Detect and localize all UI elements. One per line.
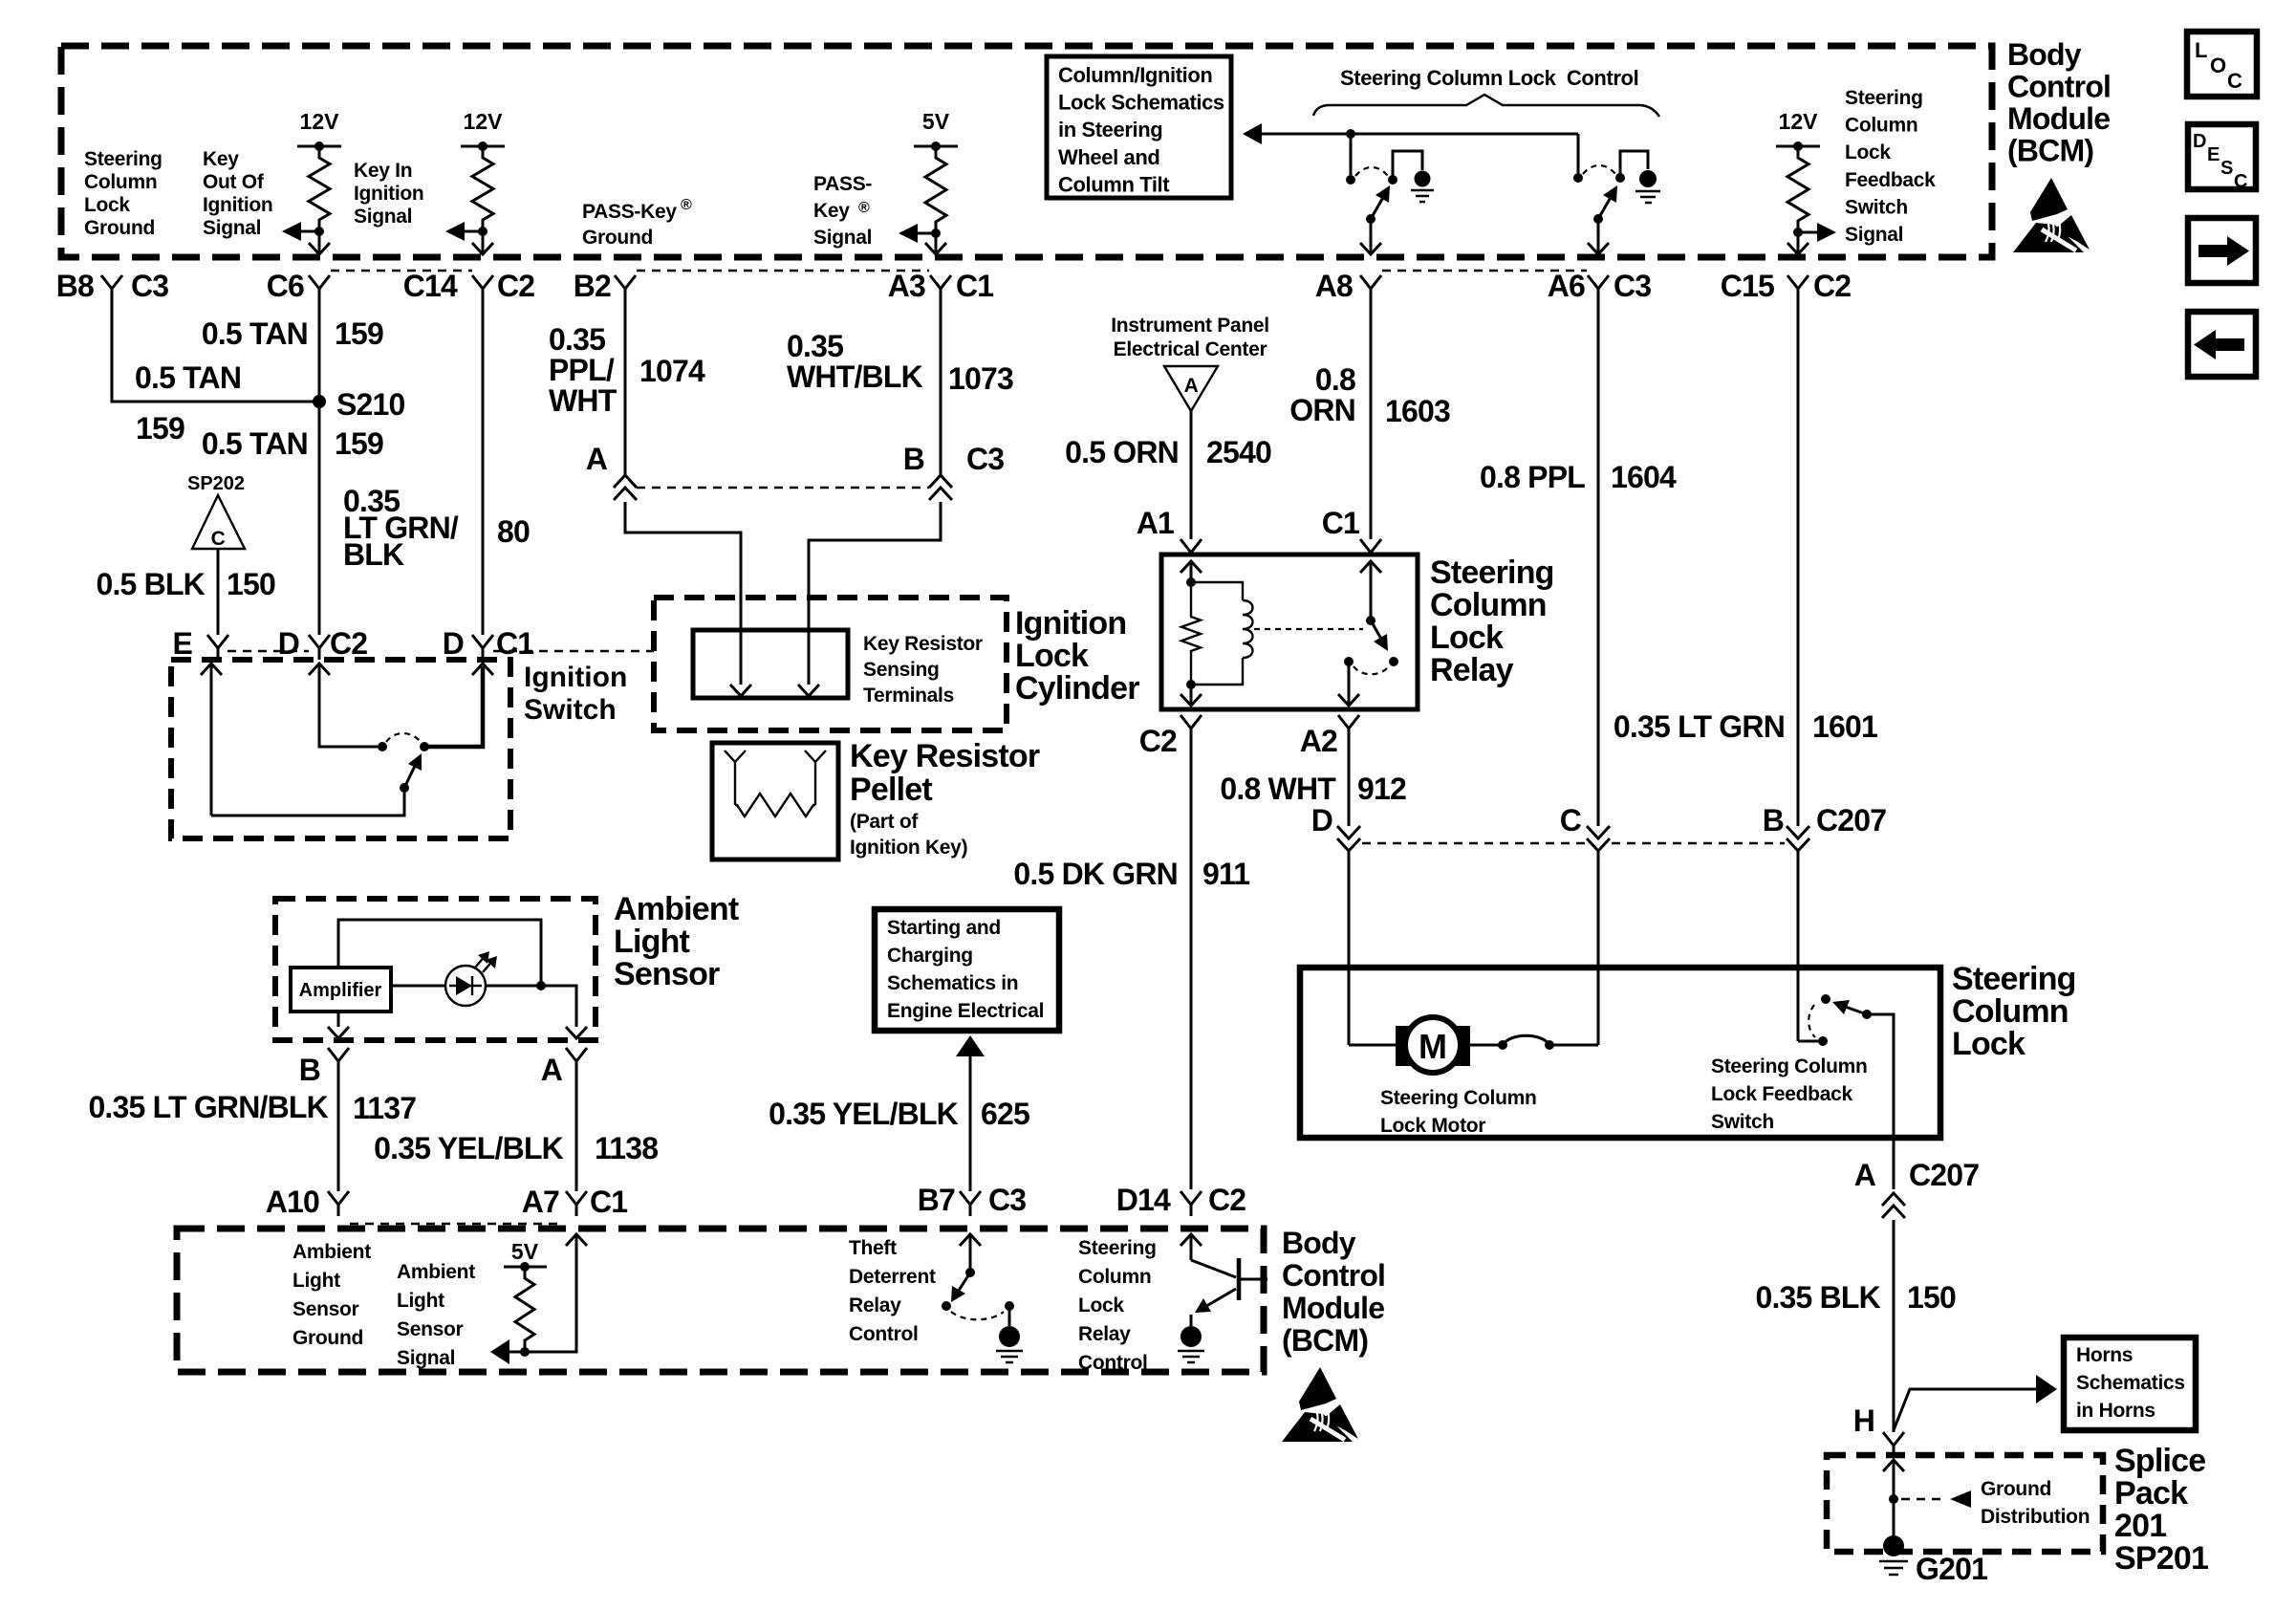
BCM internal: steering column lock relay control transistor [1180,1234,1202,1246]
svg-text:SP201: SP201 [2114,1540,2208,1577]
svg-text:Column: Column [84,171,157,193]
svg-text:®: ® [858,200,870,216]
relay coil branch: A1 input [1180,561,1202,573]
svg-text:0.35 YEL/BLK: 0.35 YEL/BLK [769,1097,959,1131]
connector A2 below relay [1338,715,1359,741]
Body Control Module (BCM) bottom dashed box [177,1229,1264,1372]
svg-text:C2: C2 [497,269,534,303]
svg-text:0.35 BLK: 0.35 BLK [1755,1280,1880,1315]
svg-text:Sensor: Sensor [397,1318,464,1340]
svg-text:Column: Column [1845,115,1917,137]
svg-text:B: B [903,442,924,476]
svg-text:Steering Column: Steering Column [1380,1087,1537,1109]
Horns Schematics in Horns box [2064,1338,2196,1430]
connector C14/C2 [472,275,493,300]
splice S210 [313,395,326,408]
svg-text:C: C [1560,803,1582,838]
svg-text:H: H [1853,1403,1874,1438]
svg-text:Ignition: Ignition [354,183,423,205]
svg-text:C3: C3 [988,1183,1026,1217]
svg-text:Sensor: Sensor [614,956,720,992]
svg-text:Switch: Switch [1711,1111,1774,1133]
svg-text:Signal: Signal [813,227,872,249]
svg-text:12V: 12V [300,109,340,134]
wire: amplifier to B output [337,1012,340,1027]
Splice Pack dashed box [1827,1455,2103,1552]
svg-text:Steering: Steering [1952,961,2076,997]
DESC reference box [2188,124,2256,189]
svg-text:S210: S210 [336,387,405,422]
svg-text:WHT: WHT [549,383,617,418]
svg-text:C1: C1 [956,269,993,303]
svg-text:Ignition: Ignition [203,194,272,216]
wire: S1 arm to A8 pin [1370,219,1373,254]
svg-text:0.5 BLK: 0.5 BLK [96,567,205,601]
svg-text:Lock: Lock [1952,1026,2025,1062]
svg-text:Terminals: Terminals [863,685,954,707]
svg-text:Ground: Ground [292,1327,363,1349]
svg-text:Key: Key [813,200,850,222]
svg-text:Sensing: Sensing [863,659,940,681]
svg-text:Deterrent: Deterrent [849,1266,936,1288]
connector C1 at relay [1360,539,1381,555]
svg-text:Steering Column: Steering Column [1711,1055,1868,1077]
Key Resistor Pellet box [712,743,838,859]
svg-text:in Steering: in Steering [1058,118,1162,141]
Ignition Switch dashed box [171,660,510,838]
svg-text:Relay: Relay [849,1295,901,1316]
svg-text:0.8 WHT: 0.8 WHT [1220,772,1336,806]
connector A [566,1048,587,1073]
ignition switch internal: E terminal arrow [201,664,222,675]
connector E [207,635,228,660]
svg-text:Control: Control [1282,1258,1385,1293]
svg-text:80: 80 [497,514,530,549]
svg-text:Feedback: Feedback [1845,169,1936,191]
svg-text:Control: Control [849,1323,919,1345]
ignition switch movable arm [400,783,409,793]
svg-text:Electrical Center: Electrical Center [1114,338,1267,360]
svg-text:Light: Light [292,1270,340,1292]
svg-text:E: E [2207,144,2220,165]
svg-text:Light: Light [614,924,690,960]
svg-text:Ground: Ground [84,217,155,239]
svg-text:Out Of: Out Of [203,171,265,193]
wire: relay contact to A2 output [1348,662,1351,706]
wire: steering column lock control line with left arrow [1259,133,1578,136]
svg-text:159: 159 [136,411,184,446]
photodiode [391,985,445,988]
relay coil [1191,582,1243,600]
svg-text:Switch: Switch [524,694,617,726]
svg-text:A2: A2 [1300,724,1337,758]
svg-text:Key Resistor: Key Resistor [863,633,983,655]
svg-text:0.8: 0.8 [1315,362,1355,397]
connector B2 [615,275,636,300]
connector A6/C3 [1588,275,1609,300]
svg-text:Lock: Lock [1430,620,1504,656]
connector D14/C2 [1180,1191,1202,1216]
svg-text:Lock: Lock [1845,141,1891,163]
ground at transistor [1180,1326,1202,1347]
Key Resistor Sensing Terminals inner box [693,630,848,698]
ESD sensitivity symbol bottom [1282,1367,1358,1442]
svg-text:5V: 5V [922,109,950,134]
svg-text:A: A [541,1053,563,1087]
connector H [1883,1432,1904,1457]
svg-text:Sensor: Sensor [292,1298,359,1320]
svg-text:0.35 LT GRN: 0.35 LT GRN [1614,709,1785,744]
svg-text:Key: Key [203,148,239,170]
key resistor pellet terminals and resistor [725,751,826,794]
connector A8 [1360,275,1381,300]
svg-text:C6: C6 [267,269,304,303]
svg-text:Wheel and: Wheel and [1058,145,1159,169]
svg-text:SP202: SP202 [187,473,245,494]
wire: R1 to C6 pin with signal arrow [314,227,324,236]
svg-text:Body: Body [2007,37,2082,72]
svg-text:Lock Feedback: Lock Feedback [1711,1083,1852,1105]
connector A C207 [1882,1193,1905,1218]
amplifier box [291,968,391,1012]
relay switch arm [1371,620,1382,641]
svg-text:A: A [1854,1158,1876,1192]
svg-text:Column/Ignition: Column/Ignition [1058,63,1212,87]
svg-text:D: D [443,626,464,661]
wire: C2 key in ignition signal down (ckt 80) [482,300,485,635]
connector A3/C1 [930,275,951,300]
svg-text:Ignition: Ignition [524,662,627,693]
wire: A3/C1 PASS-Key signal down [940,300,942,475]
connector C15/C2 [1787,275,1809,300]
ignition switch internal: C1 terminal thick contact [472,664,493,675]
splice pack internal wire [1883,1460,1904,1471]
svg-text:D: D [2193,131,2206,152]
svg-text:C2: C2 [330,626,367,661]
svg-text:Horns: Horns [2076,1344,2133,1366]
svg-text:Steering Column Lock Control: Steering Column Lock Control [1340,66,1638,90]
connector A7/C1 [566,1191,587,1216]
wire: B connector to key resistor sensing terminal right [809,502,941,685]
svg-text:625: 625 [981,1097,1029,1131]
wire: relay A2 down (ckt 912) [1348,741,1351,826]
svg-text:ORN: ORN [1289,393,1355,427]
svg-text:C3: C3 [131,269,168,303]
svg-text:A7: A7 [522,1185,559,1219]
svg-text:®: ® [681,197,692,213]
svg-text:A: A [1184,375,1199,397]
svg-text:0.5 ORN: 0.5 ORN [1065,435,1179,469]
svg-text:C: C [211,528,226,550]
svg-text:(BCM): (BCM) [1282,1323,1368,1358]
svg-text:Ambient: Ambient [614,891,739,927]
svg-text:Ignition: Ignition [1015,605,1126,642]
svg-text:1603: 1603 [1385,394,1450,428]
wire: A down to A7 [575,1073,578,1191]
svg-text:Lock: Lock [1078,1295,1124,1316]
svg-text:B2: B2 [574,269,611,303]
wire: arm to E terminal [211,788,404,816]
svg-text:PPL/: PPL/ [549,353,615,387]
connector B8/C3 [101,275,122,300]
svg-text:C207: C207 [1909,1158,1979,1192]
switch S2: column lock control switch right [1577,134,1580,173]
svg-text:Signal: Signal [1845,224,1903,246]
svg-text:Column Tilt: Column Tilt [1058,172,1170,196]
Ambient Light Sensor dashed box [275,899,596,1040]
switch contact arc [386,733,421,742]
svg-text:(BCM): (BCM) [2007,134,2093,168]
svg-text:1601: 1601 [1812,709,1877,744]
svg-text:5V: 5V [511,1239,539,1264]
wire: R4 to C15 pin with right signal arrow [1793,228,1803,237]
relay switch contact arc [1354,666,1389,674]
svg-text:Steering: Steering [84,148,162,170]
forward arrow box [2188,218,2256,283]
svg-text:C207: C207 [1816,803,1886,838]
svg-text:A10: A10 [266,1185,319,1219]
thin dashed line A10-A7 [350,1223,564,1225]
svg-text:D14: D14 [1116,1183,1171,1217]
svg-text:Column: Column [1078,1266,1151,1288]
svg-text:Ground: Ground [1981,1478,2051,1500]
wire: A8 to relay C1 [1370,300,1373,539]
svg-text:0.35 LT GRN/BLK: 0.35 LT GRN/BLK [88,1090,328,1124]
svg-text:Ignition Key): Ignition Key) [850,837,967,859]
svg-text:B7: B7 [918,1183,955,1217]
wire: A6/C3 down (ckt 1604) [1597,300,1600,826]
svg-text:Light: Light [397,1290,444,1312]
Steering Column Lock box [1300,968,1940,1138]
wire: B7 up to starting/charging box [956,1035,985,1056]
svg-text:C3: C3 [1614,269,1651,303]
svg-text:Schematics: Schematics [2076,1372,2185,1394]
svg-text:Steering: Steering [1430,555,1554,591]
svg-text:C1: C1 [590,1185,627,1219]
wire: S2 arm to A6 pin [1597,219,1600,254]
relay link dashed [1254,628,1363,630]
svg-text:0.5 TAN: 0.5 TAN [135,360,241,395]
svg-text:Lock Schematics: Lock Schematics [1058,91,1224,115]
steering column lock feedback switch [1798,1040,1818,1043]
relay switch: C1 input arrow [1360,561,1381,573]
wire: relay C2 down to BCM D14 (ckt 911) [1190,741,1193,1189]
back arrow box [2188,312,2256,377]
svg-text:PASS-Key: PASS-Key [582,201,677,223]
svg-text:12V: 12V [1779,109,1819,134]
svg-text:M: M [1419,1027,1447,1066]
svg-text:E: E [172,626,192,661]
svg-text:D: D [278,626,299,661]
Body Control Module (BCM) top dashed box [61,46,1992,257]
wire: B down to A10 [337,1073,340,1191]
svg-text:S: S [2220,158,2233,179]
svg-text:Distribution: Distribution [1981,1506,2090,1528]
ESD sensitivity symbol top right [2013,178,2090,252]
svg-text:A6: A6 [1548,269,1585,303]
svg-text:G201: G201 [1916,1552,1987,1586]
svg-text:Column: Column [1952,993,2069,1030]
svg-text:Relay: Relay [1078,1323,1131,1345]
connector B7/C3 [960,1191,981,1216]
svg-text:B8: B8 [56,269,94,303]
svg-text:C2: C2 [1813,269,1851,303]
svg-text:C2: C2 [1139,724,1177,758]
ground at S2 [1639,170,1657,187]
svg-text:159: 159 [335,426,383,461]
svg-text:0.35: 0.35 [549,322,605,357]
connector C6 [309,275,330,300]
wire: C15/C2 down (ckt 1601) [1797,300,1800,826]
svg-text:1137: 1137 [353,1091,416,1125]
svg-text:Module: Module [1282,1291,1384,1325]
BCM internal: theft deterrent driver switch [960,1234,981,1246]
thin dashed connector lines at ignition switch [227,650,309,652]
svg-text:A8: A8 [1315,269,1353,303]
svg-text:BLK: BLK [343,537,404,572]
svg-text:Splice: Splice [2114,1443,2205,1479]
wire: C6 key out of ignition signal down [318,300,321,635]
svg-text:1074: 1074 [639,354,705,388]
wire: triangle A to A1 [1190,411,1193,539]
svg-text:Switch: Switch [1845,196,1908,218]
wire: feedback switch to A C207 [1867,1014,1894,1189]
svg-text:Signal: Signal [397,1347,455,1369]
svg-text:L: L [2195,38,2207,62]
svg-text:912: 912 [1357,772,1406,806]
svg-text:WHT/BLK: WHT/BLK [787,359,923,394]
thin dashed connector line C207 [1362,842,1585,844]
svg-text:Schematics in: Schematics in [887,972,1018,994]
svg-text:0.35: 0.35 [787,329,843,363]
svg-text:Amplifier: Amplifier [299,980,382,1001]
svg-text:Steering: Steering [1078,1237,1157,1259]
svg-text:1604: 1604 [1611,460,1677,494]
svg-text:in Horns: in Horns [2076,1400,2155,1422]
svg-text:Steering: Steering [1845,87,1923,109]
svg-text:PASS-: PASS- [813,173,872,195]
svg-text:Ambient: Ambient [292,1241,371,1263]
svg-text:Signal: Signal [354,206,412,228]
svg-text:0.8 PPL: 0.8 PPL [1480,460,1585,494]
ignition switch internal: C2 terminal arrow and contact [309,664,330,675]
svg-text:(Part of: (Part of [850,811,919,833]
svg-text:0.5 DK GRN: 0.5 DK GRN [1013,857,1178,891]
svg-text:Pack: Pack [2114,1475,2188,1512]
Steering Column Lock Relay box [1161,555,1418,709]
svg-text:Column: Column [1430,587,1547,623]
svg-text:Lock: Lock [84,194,130,216]
switch S1: column lock control switch left [1350,134,1353,175]
svg-text:150: 150 [1907,1280,1956,1315]
svg-text:O: O [2210,54,2226,77]
svg-text:B: B [1763,803,1784,838]
steering column lock motor M [1349,1044,1396,1047]
svg-text:2540: 2540 [1206,435,1271,469]
svg-text:C14: C14 [403,269,458,303]
LOC reference box [2187,32,2257,97]
connector B [328,1048,349,1073]
power feed triangle A [1164,366,1218,411]
svg-text:Key Resistor: Key Resistor [850,738,1040,774]
svg-text:Cylinder: Cylinder [1015,670,1139,707]
connector C207 pin C [1587,826,1610,851]
thin dashed connector face lines [331,270,472,272]
svg-text:Module: Module [2007,101,2110,136]
wire: A C207 down to H [1893,1220,1895,1432]
svg-text:Charging: Charging [887,945,973,967]
wire: R2 to C14 pin with signal arrow [478,227,487,236]
Starting and Charging Schematics box [875,909,1059,1031]
svg-text:Control: Control [1078,1352,1148,1374]
svg-text:Signal: Signal [203,217,261,239]
wire: SP202 to E pin [217,549,220,635]
svg-text:C1: C1 [1322,506,1359,540]
svg-text:Relay: Relay [1430,652,1514,688]
svg-text:A1: A1 [1137,506,1174,540]
svg-text:Starting and: Starting and [887,917,1001,939]
svg-text:A: A [586,442,608,476]
wire: B8 steering column lock ground to S210 [112,300,315,402]
ground G201 [1883,1535,1904,1556]
ground at theft deterrent driver [999,1326,1020,1347]
ground at S1 [1415,171,1431,187]
svg-text:150: 150 [227,567,275,601]
branch wire to horns schematics [1894,1389,2036,1430]
svg-text:0.35 YEL/BLK: 0.35 YEL/BLK [374,1131,564,1165]
svg-text:D: D [1311,803,1332,838]
thin dashed connector line A to B [637,487,929,489]
wire: A connector to key resistor sensing terminal left [625,502,741,685]
S1 movable arm with arrow [1366,214,1375,224]
svg-text:B: B [299,1053,320,1087]
svg-text:1073: 1073 [948,361,1013,396]
wire: photodiode to A output [486,986,576,1027]
node: junction on control line [1346,129,1355,139]
svg-text:Pellet: Pellet [850,772,932,808]
wire: R3 to A3 pin with signal arrow [931,228,941,238]
connector C2 below relay [1180,715,1202,741]
svg-text:C3: C3 [966,442,1004,476]
connector C207 pin D [1337,826,1360,851]
svg-text:C: C [2227,69,2242,93]
svg-text:C1: C1 [496,626,533,661]
svg-text:0.5 TAN: 0.5 TAN [202,316,308,351]
photodiode light arrows [475,954,494,972]
svg-text:Theft: Theft [849,1237,897,1259]
ground distribution reference [1901,1498,1946,1500]
svg-text:Engine Electrical: Engine Electrical [887,1000,1044,1022]
connector A1 [1180,539,1202,555]
svg-text:0.5 TAN: 0.5 TAN [202,426,308,461]
connector D/C2 [309,635,330,660]
connector C207 pin B [1787,826,1809,851]
BCM internal: A7 input arrow [566,1234,587,1246]
svg-text:Key In: Key In [354,160,412,182]
connector D/C1 [472,635,493,660]
Ignition Lock Cylinder dashed box [654,598,1007,730]
feedback switch arm with arrow [1837,1004,1867,1014]
wire: B2 PASS-Key ground down [624,300,627,475]
svg-text:Ambient: Ambient [397,1261,475,1283]
svg-text:Ground: Ground [582,227,653,249]
svg-text:911: 911 [1202,857,1249,891]
svg-text:201: 201 [2114,1508,2166,1544]
connector A10 [328,1191,349,1216]
svg-text:12V: 12V [464,109,504,134]
svg-text:Lock: Lock [1015,638,1089,674]
sensor loop wire [338,920,541,986]
